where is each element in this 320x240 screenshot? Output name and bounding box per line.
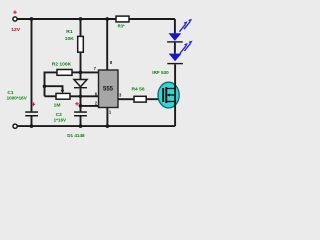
resistor R4 (134, 96, 146, 102)
junction C2/ground (79, 124, 83, 128)
wire D1 cathode down to THR/TRG column (80, 88, 82, 111)
transistor Q1 drain stub (166, 88, 175, 90)
svg-text:R4 56: R4 56 (132, 86, 145, 92)
IC 555 timer body (99, 70, 119, 108)
svg-text:R2 100K: R2 100K (52, 62, 72, 68)
wire pot to pin 6 (THR node) (70, 95, 99, 97)
junction node DIS (79, 71, 83, 75)
wire ground bottom rail (17, 125, 175, 127)
terminal ground return (13, 124, 17, 128)
wire R1 to node DIS (80, 52, 82, 79)
LED D2 emission arrows (180, 19, 193, 32)
diode D1 (74, 80, 87, 89)
terminal 12V supply (13, 17, 17, 21)
wire C1 branch from rail to C1 (31, 19, 33, 111)
junction rail/pin8 (105, 17, 109, 21)
junction wiper tap (43, 84, 47, 88)
wire top supply rail (17, 18, 175, 20)
wire pin 3 to R4 (118, 98, 134, 100)
wire pin 1 to ground rail (106, 108, 108, 127)
transistor Q1 source stub (166, 101, 175, 103)
junction TRG node (79, 104, 83, 108)
resistor R2 (45, 70, 81, 97)
LED D2 (167, 33, 183, 42)
svg-text:10K: 10K (65, 36, 74, 42)
polarity + mark C1 (32, 102, 36, 106)
transistor Q1 bulk arrow (169, 94, 175, 96)
wire LED drop from rail corner (174, 19, 176, 33)
transistor Q1 gate bar (162, 88, 164, 102)
wire pin 8 to rail (106, 19, 108, 70)
junction rail/R1 (79, 17, 83, 21)
svg-text:R3*: R3* (118, 24, 125, 29)
transistor Q1 IRF 530 body (158, 82, 179, 108)
junction rail/C1 (30, 17, 34, 21)
LED D3 (167, 54, 183, 65)
svg-text:1M: 1M (54, 103, 61, 109)
svg-text:12V: 12V (11, 27, 20, 33)
polarity + mark C2 (75, 102, 79, 106)
svg-text:D1 4148: D1 4148 (67, 133, 85, 138)
wire wiper tap (45, 86, 63, 90)
svg-text:1*16V: 1*16V (54, 118, 67, 123)
junction pin1/ground (106, 124, 110, 128)
svg-text:R1: R1 (66, 29, 73, 35)
junction C1/ground (30, 124, 34, 128)
wire rail to R1 (80, 19, 82, 36)
svg-text:555: 555 (103, 87, 114, 93)
transistor Q1 channel bar (165, 87, 167, 103)
wire drain/source column through Q1 (174, 64, 176, 126)
wire LED D2 to LED D3 (174, 43, 176, 54)
wire R4 to gate (146, 98, 163, 100)
resistor R3 (116, 16, 129, 22)
wire pin 2 to column (81, 105, 99, 107)
svg-text:1000*16V: 1000*16V (7, 95, 28, 100)
svg-text:IRF 530: IRF 530 (152, 70, 169, 75)
polarity + mark at supply (13, 10, 17, 14)
resistor R1 (78, 36, 84, 52)
wire node DIS to pin 7 (81, 71, 99, 73)
LED D3 emission arrows (180, 41, 193, 54)
potentiometer 1M (45, 93, 71, 99)
capacitor C2 (74, 111, 87, 126)
potentiometer wiper arrow (61, 90, 65, 94)
capacitor C1 (25, 111, 38, 126)
junction THR node (79, 94, 83, 98)
